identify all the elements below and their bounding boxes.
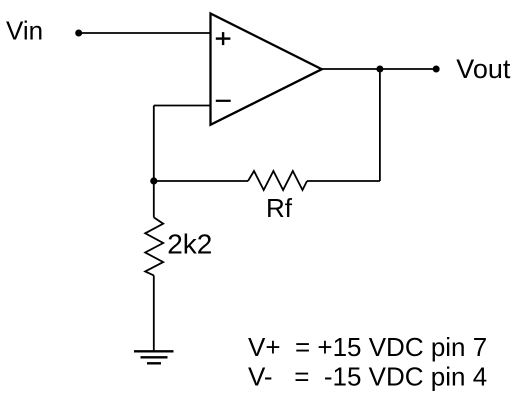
input terminal dot (node Vin) <box>75 30 82 37</box>
terminal dot Vout <box>433 66 440 73</box>
node output junction dot <box>376 66 383 73</box>
svg-text:Vin: Vin <box>6 16 43 46</box>
label Vout <box>456 54 511 84</box>
wire inverting input horizontal segment <box>154 105 211 107</box>
wire resistor 2k2 to ground <box>153 275 155 351</box>
label Rf <box>266 193 293 223</box>
wire node to resistor Rf <box>154 180 248 182</box>
wire Rf to output corner <box>307 180 380 182</box>
note supply V+ pin 7 <box>248 332 487 362</box>
svg-text:Vout: Vout <box>456 54 511 84</box>
node feedback junction dot <box>150 177 157 184</box>
ground <box>134 351 174 363</box>
label 2k2 <box>167 228 212 259</box>
resistor 2k2 <box>145 217 163 275</box>
svg-text:2k2: 2k2 <box>167 228 212 259</box>
wire node to resistor 2k2 <box>153 181 155 217</box>
op-amp U1 <box>211 14 322 125</box>
svg-text:V+ = +15 VDC pin 7: V+ = +15 VDC pin 7 <box>248 332 487 362</box>
svg-text:V- = -15 VDC pin 4: V- = -15 VDC pin 4 <box>248 361 487 391</box>
op-amp + input marker <box>216 32 231 45</box>
svg-text:Rf: Rf <box>266 193 293 223</box>
wire op-amp output to Vout terminal <box>322 68 436 70</box>
resistor Rf <box>248 171 307 190</box>
op-amp - input marker <box>216 100 231 102</box>
wire feedback vertical up to output <box>379 69 381 181</box>
wire inverting input down to feedback node <box>153 106 155 182</box>
label Vin <box>6 16 43 46</box>
wire Vin to op-amp non-inverting input <box>79 32 211 34</box>
note supply V- pin 4 <box>248 361 487 391</box>
